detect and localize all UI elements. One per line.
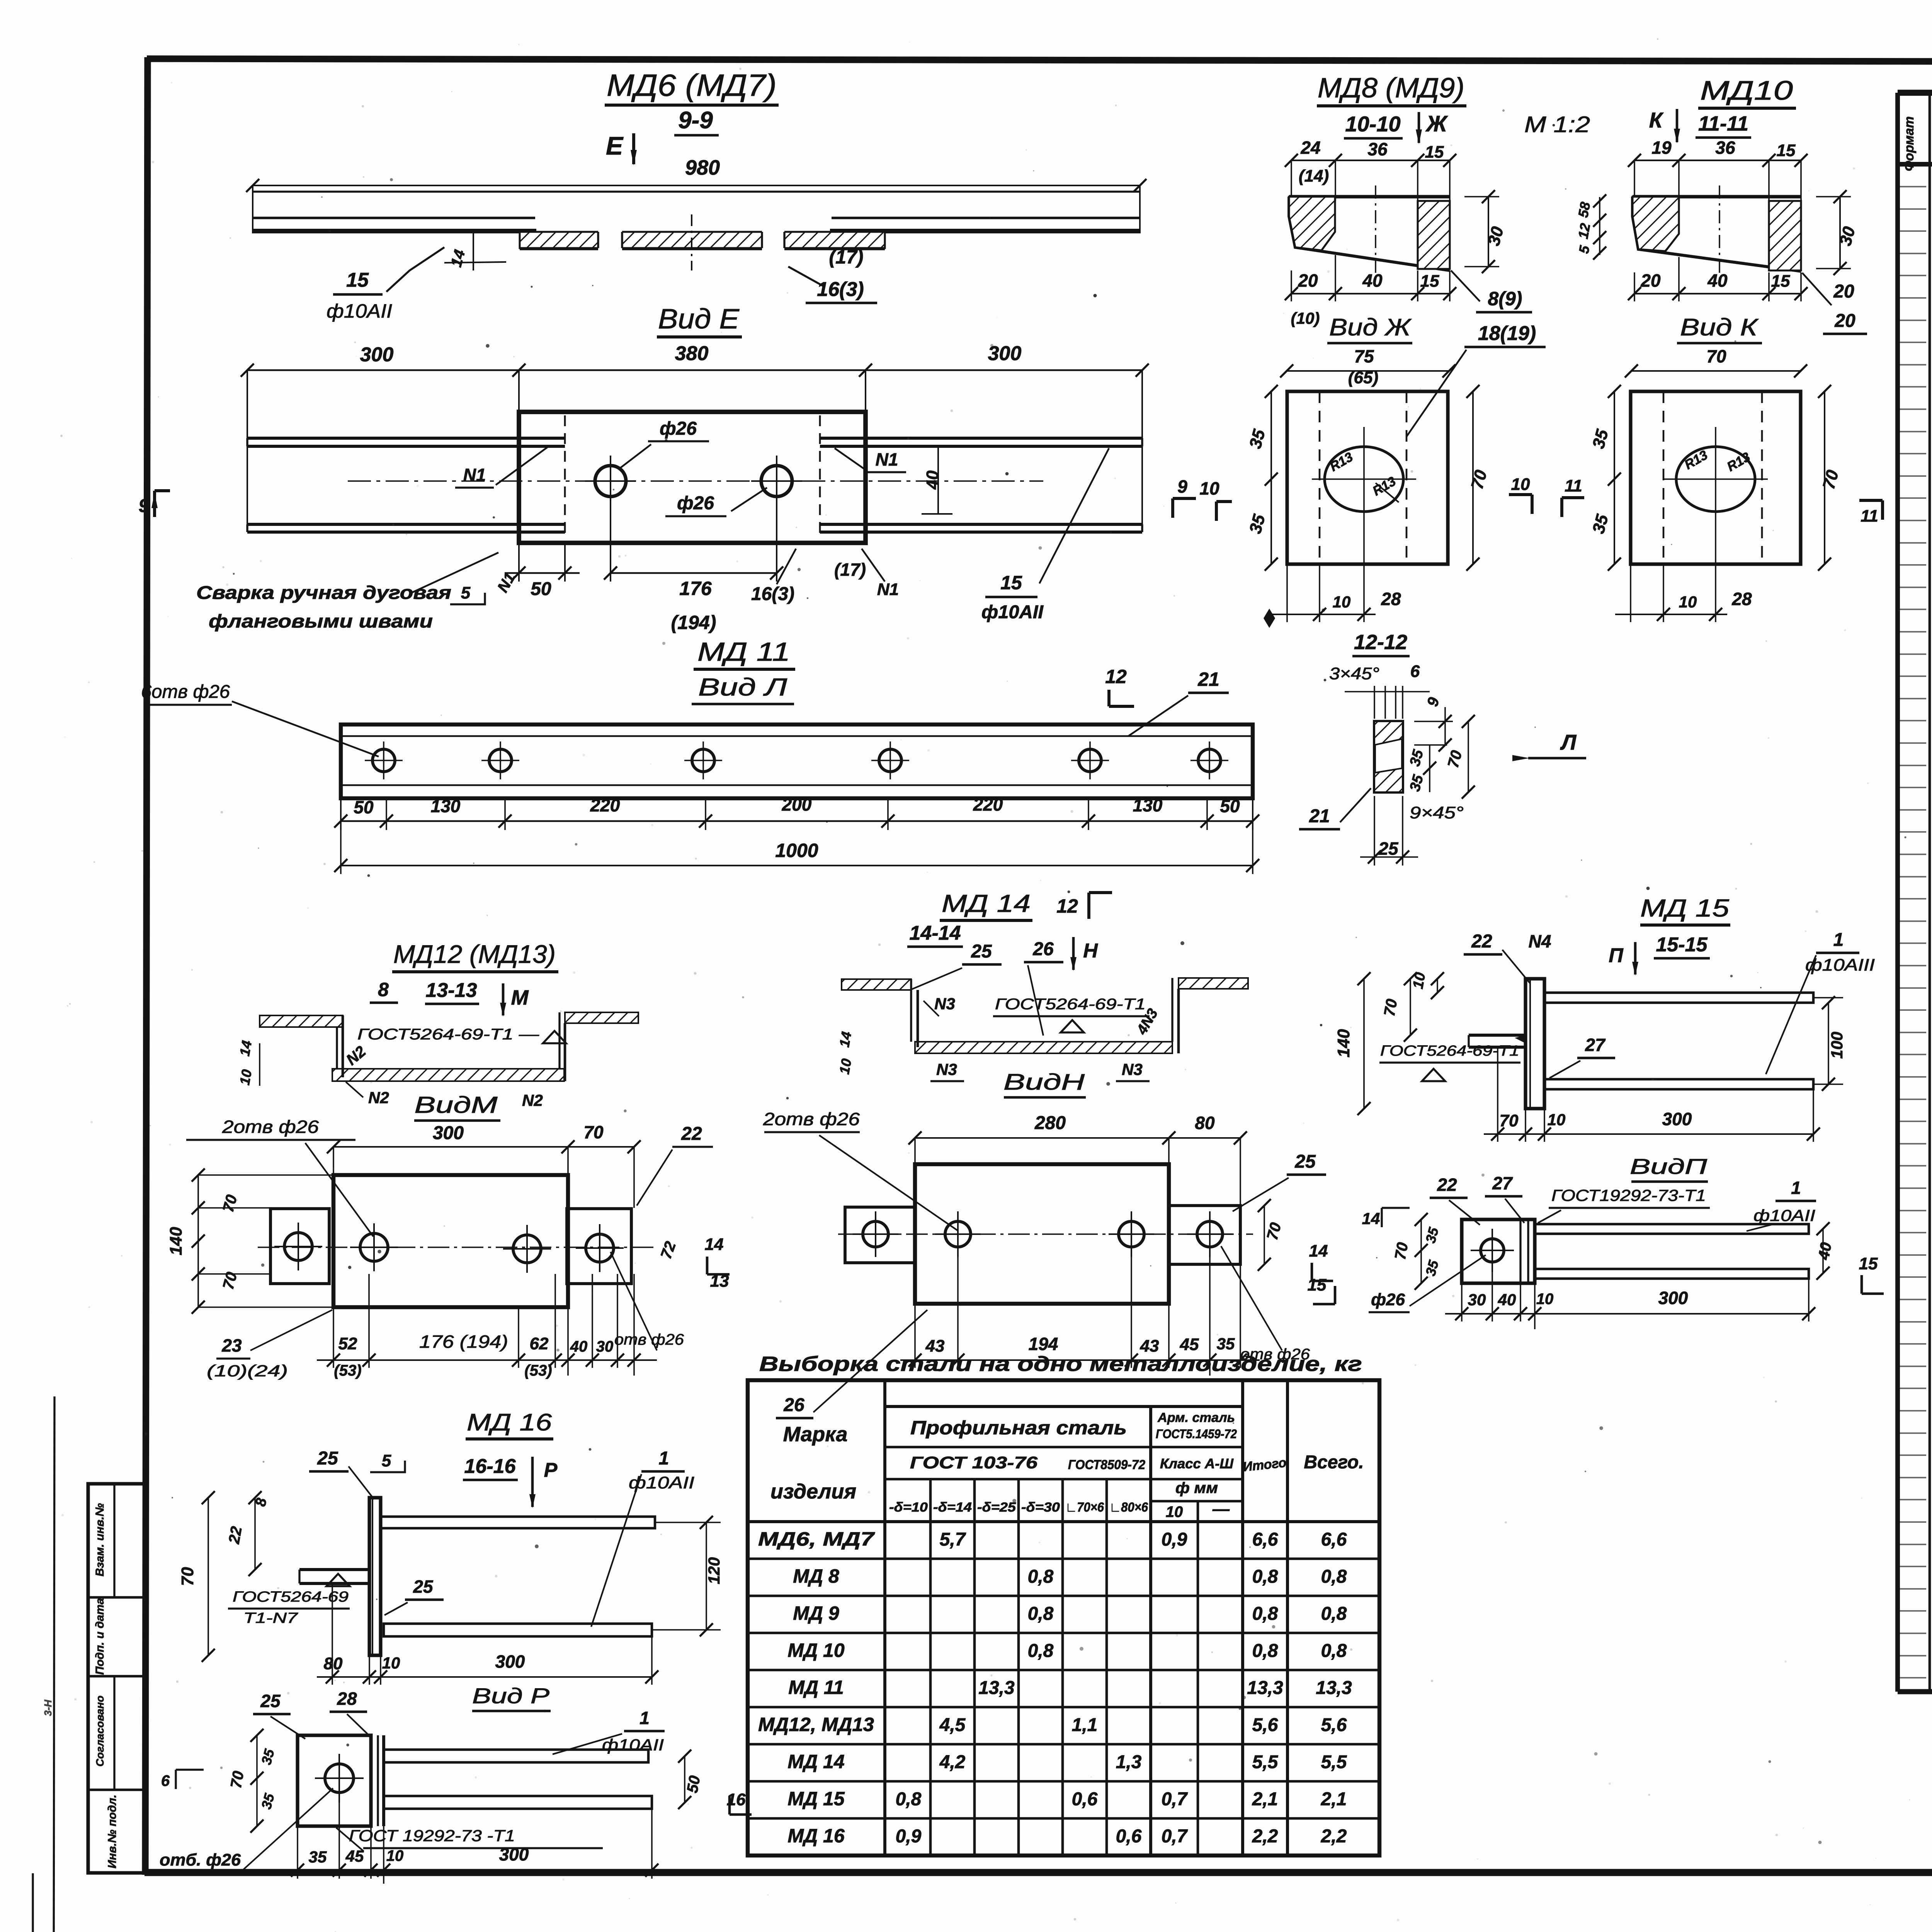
svg-text:200: 200: [782, 794, 812, 815]
svg-text:14-14: 14-14: [910, 922, 961, 944]
svg-text:15: 15: [1771, 272, 1790, 291]
svg-text:14: 14: [1362, 1209, 1380, 1228]
svg-text:4,5: 4,5: [939, 1715, 966, 1735]
svg-text:МД6 (МД7): МД6 (МД7): [607, 68, 777, 102]
svg-text:МД 8: МД 8: [793, 1565, 839, 1587]
svg-text:Н: Н: [1083, 940, 1098, 962]
svg-text:ГОСТ5264-69-Т1: ГОСТ5264-69-Т1: [995, 996, 1146, 1013]
svg-text:140: 140: [1334, 1029, 1353, 1058]
svg-text:-δ=10: -δ=10: [889, 1500, 928, 1515]
svg-text:2,2: 2,2: [1252, 1826, 1278, 1847]
svg-text:10-10: 10-10: [1345, 112, 1400, 136]
view M plate: [333, 1175, 568, 1307]
svg-text:ф26: ф26: [1371, 1290, 1405, 1309]
svg-text:28: 28: [1381, 589, 1401, 609]
svg-text:15: 15: [1777, 141, 1796, 160]
svg-text:52: 52: [338, 1334, 357, 1353]
svg-text:40: 40: [1815, 1241, 1835, 1261]
view E hole f26 right: [761, 466, 792, 497]
view N holes: [945, 1221, 971, 1247]
svg-text:25: 25: [1378, 838, 1399, 859]
svg-text:П: П: [1609, 944, 1624, 967]
svg-text:10: 10: [1410, 971, 1429, 990]
svg-text:Марка: Марка: [783, 1423, 848, 1446]
specification table grid: [1898, 90, 1932, 96]
svg-text:6: 6: [1410, 662, 1420, 681]
svg-text:6,6: 6,6: [1252, 1529, 1278, 1550]
svg-text:25: 25: [413, 1577, 434, 1597]
svg-text:3-Н: 3-Н: [42, 1699, 54, 1716]
svg-text:11-11: 11-11: [1698, 112, 1748, 135]
svg-text:ф10АIII: ф10АIII: [1805, 956, 1875, 975]
svg-text:Вид Р: Вид Р: [472, 1684, 549, 1708]
svg-text:ф26: ф26: [660, 418, 697, 439]
view K square plate: [1631, 391, 1801, 564]
view Zh square plate: [1287, 391, 1448, 564]
svg-text:75: 75: [1354, 346, 1374, 366]
svg-text:Формат: Формат: [1902, 116, 1917, 171]
svg-text:Вид К: Вид К: [1680, 314, 1759, 341]
svg-text:1,3: 1,3: [1116, 1752, 1142, 1772]
svg-text:N3: N3: [936, 1060, 957, 1078]
view E section marker 9 left: [153, 491, 156, 517]
svg-text:МД12 (МД13): МД12 (МД13): [393, 940, 556, 968]
svg-text:10: 10: [382, 1654, 400, 1672]
svg-text:28: 28: [337, 1689, 357, 1709]
view N central plate: [915, 1164, 1169, 1304]
svg-text:0,6: 0,6: [1116, 1826, 1142, 1847]
svg-text:ВидП: ВидП: [1630, 1154, 1708, 1179]
svg-text:50: 50: [684, 1774, 704, 1794]
svg-text:2,1: 2,1: [1321, 1789, 1347, 1810]
svg-text:Ж: Ж: [1425, 111, 1448, 136]
svg-text:(10)(24): (10)(24): [207, 1362, 288, 1380]
view N left lug: [845, 1207, 915, 1263]
MD11 dim chain: [340, 798, 342, 830]
svg-text:23: 23: [221, 1335, 242, 1355]
svg-text:М: М: [511, 986, 529, 1009]
svg-text:140: 140: [167, 1227, 185, 1255]
svg-text:5,5: 5,5: [1321, 1752, 1347, 1772]
svg-text:ф10АII: ф10АII: [981, 602, 1044, 622]
svg-text:40: 40: [570, 1338, 588, 1355]
svg-text:Выборка стали на одно мета: Выборка стали на одно металлоизделие, кг: [759, 1352, 1362, 1376]
view M centerline: [258, 1247, 654, 1248]
svg-text:-δ=30: -δ=30: [1021, 1500, 1060, 1515]
svg-text:50: 50: [531, 579, 551, 599]
svg-text:N3: N3: [1122, 1060, 1143, 1078]
svg-text:20: 20: [1640, 270, 1661, 291]
svg-text:Подп. и дата: Подп. и дата: [94, 1598, 106, 1675]
svg-text:2,2: 2,2: [1321, 1826, 1347, 1847]
svg-text:фланговыми швами: фланговыми швами: [209, 611, 433, 632]
svg-text:0,8: 0,8: [1252, 1641, 1278, 1661]
section 16-16 vertical angle: [369, 1498, 381, 1655]
svg-text:2отв ф26: 2отв ф26: [763, 1109, 860, 1129]
svg-text:1: 1: [639, 1708, 650, 1728]
svg-text:МД 15: МД 15: [1640, 894, 1729, 922]
view E hole f26 left: [595, 466, 626, 497]
svg-text:6,6: 6,6: [1321, 1529, 1347, 1550]
svg-text:70: 70: [228, 1770, 247, 1789]
svg-text:70: 70: [1392, 1241, 1412, 1261]
svg-text:МД 11: МД 11: [788, 1677, 844, 1698]
svg-text:13: 13: [710, 1272, 729, 1291]
svg-text:280: 280: [1034, 1113, 1066, 1133]
svg-text:ф10АII: ф10АII: [1753, 1206, 1815, 1225]
view E hidden bar ends dashed: [564, 415, 566, 539]
MD10 dim 30 right: [1816, 196, 1851, 197]
svg-text:130: 130: [1133, 795, 1163, 815]
svg-text:МД12, МД13: МД12, МД13: [758, 1714, 874, 1735]
svg-text:120: 120: [705, 1557, 723, 1584]
svg-text:10: 10: [1199, 478, 1219, 498]
section 15-15 bottom dims: [1525, 1109, 1526, 1142]
svg-text:1: 1: [1791, 1178, 1801, 1198]
svg-text:N1: N1: [463, 465, 486, 485]
svg-text:3×45°: 3×45°: [1329, 664, 1379, 683]
svg-text:980: 980: [685, 156, 720, 179]
view R bottom dims: [297, 1826, 298, 1879]
svg-text:5: 5: [382, 1451, 391, 1470]
svg-text:0,9: 0,9: [896, 1826, 922, 1847]
svg-text:27: 27: [1492, 1173, 1513, 1193]
svg-text:14: 14: [236, 1039, 255, 1058]
svg-text:16(3): 16(3): [751, 584, 794, 604]
view R rods: [384, 1750, 648, 1762]
svg-text:15: 15: [1425, 143, 1444, 162]
svg-text:15: 15: [346, 269, 369, 291]
svg-text:20: 20: [1834, 311, 1855, 331]
svg-text:36: 36: [1715, 138, 1735, 158]
svg-text:0,8: 0,8: [1321, 1604, 1347, 1624]
view E section markers 9 10 right: [1173, 497, 1196, 500]
svg-text:(17): (17): [834, 560, 866, 580]
view R square: [298, 1735, 371, 1826]
svg-text:380: 380: [675, 342, 709, 365]
svg-text:22: 22: [681, 1124, 702, 1144]
svg-text:0,8: 0,8: [1252, 1566, 1278, 1587]
svg-text:10: 10: [1511, 475, 1530, 494]
svg-text:МД 15: МД 15: [787, 1788, 845, 1810]
svg-text:22: 22: [1471, 931, 1492, 952]
svg-text:К: К: [1649, 108, 1664, 132]
page outer left edge line: [54, 1396, 54, 1932]
svg-text:26: 26: [783, 1395, 804, 1415]
svg-text:МД 9: МД 9: [793, 1602, 839, 1624]
svg-text:10: 10: [1679, 593, 1697, 611]
svg-text:(17): (17): [829, 246, 864, 268]
svg-text:24: 24: [1300, 138, 1320, 158]
svg-text:300: 300: [433, 1123, 464, 1143]
svg-text:100: 100: [1828, 1032, 1846, 1059]
svg-text:70: 70: [583, 1122, 604, 1142]
svg-text:Инв.№ подл.: Инв.№ подл.: [106, 1794, 119, 1868]
svg-text:10: 10: [1536, 1291, 1554, 1308]
svg-text:ф мм: ф мм: [1175, 1480, 1218, 1497]
svg-text:220: 220: [973, 794, 1003, 815]
svg-text:62: 62: [530, 1334, 549, 1353]
svg-text:10: 10: [1333, 593, 1351, 611]
svg-text:ф26: ф26: [677, 493, 714, 514]
svg-text:отб. ф26: отб. ф26: [160, 1850, 241, 1869]
svg-text:N3: N3: [934, 995, 955, 1013]
svg-text:40: 40: [1707, 270, 1728, 291]
svg-text:ГОСТ5.1459-72: ГОСТ5.1459-72: [1156, 1427, 1237, 1441]
svg-text:80: 80: [324, 1654, 343, 1673]
svg-text:0,6: 0,6: [1072, 1789, 1098, 1810]
svg-text:18(19): 18(19): [1478, 322, 1536, 345]
svg-text:15: 15: [1859, 1254, 1878, 1273]
svg-text:∟70×6: ∟70×6: [1065, 1500, 1104, 1515]
svg-text:20: 20: [1298, 270, 1318, 291]
svg-text:14: 14: [836, 1031, 854, 1049]
svg-text:70: 70: [178, 1567, 197, 1586]
svg-text:11: 11: [1565, 476, 1582, 495]
svg-text:0,8: 0,8: [1321, 1566, 1347, 1587]
svg-text:30: 30: [596, 1338, 614, 1355]
svg-text:1: 1: [1833, 930, 1844, 950]
svg-text:—: —: [1212, 1500, 1230, 1519]
svg-text:Согласовано: Согласовано: [94, 1696, 106, 1767]
svg-text:ВидМ: ВидМ: [415, 1092, 498, 1118]
svg-text:0,7: 0,7: [1162, 1789, 1188, 1810]
view K oval hole: [1676, 447, 1755, 512]
svg-text:36: 36: [1367, 139, 1388, 159]
svg-text:Всего.: Всего.: [1304, 1452, 1364, 1473]
section 13-13 channel: [260, 1015, 343, 1027]
svg-text:70: 70: [1706, 346, 1726, 366]
view P angle edge strips: [1519, 1219, 1521, 1283]
svg-text:130: 130: [431, 796, 461, 816]
svg-text:40: 40: [1498, 1291, 1516, 1309]
drawing frame border: [147, 59, 1932, 63]
view N right bar: [1169, 1206, 1240, 1264]
svg-text:15-15: 15-15: [1656, 934, 1708, 956]
svg-text:14: 14: [1309, 1242, 1328, 1260]
svg-text:Вид E: Вид E: [658, 304, 740, 335]
svg-text:10: 10: [836, 1058, 854, 1076]
svg-text:Л: Л: [1560, 730, 1577, 754]
svg-text:∟80×6: ∟80×6: [1109, 1500, 1148, 1515]
svg-text:МД 16: МД 16: [467, 1409, 552, 1436]
svg-text:N1: N1: [877, 580, 899, 599]
MD11 holes: [372, 749, 395, 772]
section 16-16 rods: [381, 1517, 655, 1528]
svg-text:2,1: 2,1: [1252, 1789, 1278, 1810]
svg-text:N1: N1: [876, 449, 898, 469]
svg-text:176 (194): 176 (194): [419, 1332, 508, 1352]
view N bottom dims: [914, 1304, 916, 1368]
scan speckles: [990, 344, 993, 347]
svg-text:25: 25: [971, 941, 992, 962]
svg-text:12: 12: [1056, 895, 1078, 917]
svg-text:ВидН: ВидН: [1003, 1070, 1085, 1095]
view M left dims: [197, 1175, 199, 1307]
svg-text:40: 40: [1362, 270, 1383, 291]
svg-text:Класс А-Ш: Класс А-Ш: [1160, 1456, 1234, 1471]
svg-text:25: 25: [1294, 1151, 1316, 1172]
svg-text:0,8: 0,8: [1028, 1566, 1054, 1587]
svg-text:2отв ф26: 2отв ф26: [222, 1117, 319, 1137]
section 16-16 bottom dims: [369, 1655, 370, 1685]
view Zh dims: [1270, 391, 1272, 564]
svg-text:N4: N4: [1529, 931, 1551, 951]
svg-text:ГОСТ5264-69-Т1: ГОСТ5264-69-Т1: [1380, 1043, 1519, 1059]
svg-text:9×45°: 9×45°: [1410, 803, 1464, 822]
svg-text:0,8: 0,8: [1321, 1641, 1347, 1661]
section 14-14 hat profile: [842, 979, 911, 990]
svg-text:МД 10: МД 10: [787, 1639, 844, 1661]
MD10 section 11-11 body: [1633, 195, 1801, 198]
view E left bars: [247, 437, 565, 440]
svg-text:(10): (10): [1291, 309, 1320, 327]
view P rods: [1535, 1224, 1809, 1234]
svg-text:13,3: 13,3: [1316, 1678, 1352, 1698]
svg-text:Р: Р: [544, 1459, 558, 1481]
svg-text:Арм. сталь: Арм. сталь: [1157, 1410, 1235, 1425]
svg-text:10: 10: [236, 1068, 255, 1087]
svg-text:Вид Л: Вид Л: [698, 673, 787, 701]
svg-text:12: 12: [1105, 666, 1127, 687]
section 15-15 vertical angle: [1526, 979, 1544, 1109]
svg-text:20: 20: [1833, 281, 1854, 302]
svg-text:N2: N2: [522, 1091, 543, 1109]
svg-text:16(3): 16(3): [817, 278, 864, 301]
section 16-16 horizontal angle: [299, 1568, 369, 1571]
svg-text:21: 21: [1309, 806, 1330, 827]
svg-text:6отв ф26: 6отв ф26: [141, 682, 230, 702]
svg-text:300: 300: [1662, 1109, 1692, 1129]
svg-text:ф10АII: ф10АII: [602, 1736, 664, 1754]
svg-text:15: 15: [1000, 572, 1022, 594]
svg-text:МД6, МД7: МД6, МД7: [758, 1528, 875, 1550]
svg-text:ГОСТ 103-76: ГОСТ 103-76: [910, 1453, 1038, 1472]
view Zh oval hole: [1325, 447, 1403, 512]
svg-text:E: E: [606, 131, 624, 160]
section 15-15 rods: [1544, 993, 1813, 1003]
svg-text:0,8: 0,8: [1028, 1641, 1054, 1661]
svg-text:4,2: 4,2: [939, 1752, 966, 1772]
MD10 dims below: [1634, 293, 1801, 294]
svg-text:10: 10: [1548, 1111, 1566, 1129]
view M right lug: [567, 1209, 631, 1284]
view M holes: [360, 1233, 388, 1261]
svg-text:28: 28: [1731, 589, 1752, 609]
svg-text:0,8: 0,8: [1028, 1604, 1054, 1624]
svg-text:70: 70: [1500, 1111, 1519, 1130]
svg-text:300: 300: [495, 1651, 525, 1672]
MD8 section 10-10 body: [1289, 195, 1450, 198]
svg-text:176: 176: [679, 578, 712, 599]
svg-text:Вид Ж: Вид Ж: [1329, 314, 1412, 341]
view E top dimension 300 380 300: [247, 369, 1142, 371]
svg-text:194: 194: [1029, 1334, 1058, 1354]
svg-text:22: 22: [1437, 1175, 1457, 1195]
svg-text:(53): (53): [524, 1362, 552, 1379]
svg-text:1: 1: [659, 1448, 669, 1469]
ink mark: [1264, 609, 1275, 628]
svg-text:300: 300: [360, 344, 394, 366]
view R angle edge: [370, 1735, 372, 1826]
svg-text:ГОСТ 19292-73 -Т1: ГОСТ 19292-73 -Т1: [349, 1827, 515, 1845]
svg-text:ГОСТ5264-69-Т1 —: ГОСТ5264-69-Т1 —: [357, 1026, 539, 1043]
svg-text:40: 40: [923, 470, 942, 490]
svg-text:15: 15: [1308, 1276, 1327, 1294]
view E right bars: [820, 437, 1142, 440]
svg-text:12-12: 12-12: [1354, 631, 1407, 654]
svg-text:0,9: 0,9: [1162, 1529, 1187, 1550]
section markers 11: [1562, 496, 1584, 499]
svg-text:45: 45: [1180, 1335, 1199, 1354]
view E central plate: [519, 412, 866, 543]
svg-text:6: 6: [161, 1772, 170, 1789]
svg-text:(194): (194): [671, 612, 716, 633]
svg-text:9: 9: [1177, 476, 1187, 497]
svg-text:35: 35: [309, 1848, 327, 1866]
svg-text:13,3: 13,3: [1247, 1678, 1283, 1698]
svg-text:26: 26: [1032, 939, 1054, 959]
svg-text:МД 14: МД 14: [942, 889, 1031, 917]
MD11 overall dim 1000: [340, 798, 342, 874]
svg-text:0,8: 0,8: [896, 1789, 922, 1810]
svg-text:9: 9: [139, 496, 149, 516]
svg-text:50: 50: [354, 797, 374, 817]
svg-text:35: 35: [1217, 1335, 1235, 1353]
section marker 10 right of Zh: [1509, 493, 1532, 496]
svg-text:ф10АII: ф10АII: [327, 300, 392, 322]
svg-text:13-13: 13-13: [426, 979, 477, 1002]
svg-text:Взам. инв.№: Взам. инв.№: [94, 1503, 106, 1577]
svg-text:16-16: 16-16: [464, 1455, 516, 1478]
svg-text:9-9: 9-9: [678, 107, 713, 134]
view N centerline: [838, 1233, 1253, 1235]
svg-text:изделия: изделия: [770, 1480, 856, 1503]
view K dims: [1614, 391, 1615, 564]
svg-text:ГОСТ8509-72: ГОСТ8509-72: [1068, 1458, 1145, 1472]
svg-text:58: 58: [1575, 201, 1593, 219]
svg-text:-δ=25: -δ=25: [977, 1500, 1016, 1515]
svg-text:13,3: 13,3: [978, 1678, 1015, 1698]
svg-text:22: 22: [225, 1525, 245, 1545]
svg-text:М 1:2: М 1:2: [1524, 112, 1590, 137]
svg-text:10: 10: [1166, 1503, 1183, 1520]
svg-text:МД8 (МД9): МД8 (МД9): [1318, 73, 1464, 104]
dim 14 thickness: [473, 232, 474, 270]
svg-text:Т1-N7: Т1-N7: [243, 1610, 298, 1626]
view M left lug: [270, 1209, 329, 1284]
svg-text:14: 14: [705, 1235, 724, 1254]
svg-text:5,7: 5,7: [940, 1529, 966, 1550]
svg-text:5: 5: [461, 583, 471, 602]
svg-text:5,6: 5,6: [1321, 1715, 1347, 1735]
svg-text:5,5: 5,5: [1252, 1752, 1279, 1772]
svg-text:15: 15: [1420, 272, 1439, 291]
MD8 section dims top: [1291, 160, 1450, 161]
view E bottom dims: [518, 543, 520, 582]
svg-text:12: 12: [1575, 222, 1593, 240]
view M bottom dims: [333, 1307, 334, 1368]
svg-text:30: 30: [1468, 1291, 1486, 1309]
MD8 dim 30 right: [1464, 196, 1499, 197]
svg-text:8(9): 8(9): [1488, 288, 1522, 310]
svg-text:МД10: МД10: [1700, 75, 1793, 105]
section 16-16 dims: [207, 1498, 209, 1655]
view E centerline: [348, 480, 1043, 482]
svg-text:-δ=14: -δ=14: [933, 1500, 972, 1515]
svg-text:МД 16: МД 16: [787, 1825, 845, 1847]
section 15-15 dims: [1363, 979, 1365, 1109]
